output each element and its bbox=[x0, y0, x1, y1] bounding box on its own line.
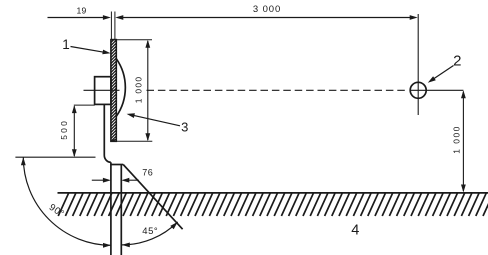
45 degree arc bbox=[122, 222, 178, 245]
dimension 19 line bbox=[48, 17, 104, 19]
loudspeaker dome 3 bbox=[116, 59, 125, 116]
svg-text:1: 1 bbox=[62, 37, 70, 52]
axis through microphone bbox=[410, 89, 464, 91]
dimension 500 line bbox=[73, 106, 75, 156]
svg-text:3: 3 bbox=[181, 119, 188, 134]
ground hatching 4 bbox=[58, 193, 488, 216]
plate extension lines top bbox=[110, 12, 112, 40]
svg-text:1 000: 1 000 bbox=[451, 125, 461, 153]
duct top edge bbox=[111, 164, 123, 166]
svg-text:2: 2 bbox=[453, 53, 461, 70]
support outline left bbox=[104, 105, 111, 163]
svg-text:45°: 45° bbox=[142, 226, 158, 237]
45 degree slope line bbox=[123, 165, 182, 230]
svg-text:19: 19 bbox=[77, 5, 87, 15]
dimension 500 top extension bbox=[74, 104, 95, 106]
label 1 leader bbox=[71, 47, 105, 53]
label 2 leader bbox=[430, 66, 454, 82]
label 3 leader bbox=[132, 115, 180, 126]
dimension 3000 line bbox=[123, 17, 412, 19]
svg-text:500: 500 bbox=[59, 119, 69, 140]
svg-text:1 000: 1 000 bbox=[134, 76, 144, 104]
microphone extension line bbox=[417, 14, 419, 115]
dimension 1000 line (left) bbox=[147, 41, 149, 140]
duct left wall bbox=[110, 162, 112, 255]
dimension 76 line left bbox=[92, 179, 104, 181]
dimension 76 line right bbox=[128, 179, 139, 181]
dimension 1000 top extension bbox=[117, 39, 153, 41]
axis centerline solid bbox=[84, 89, 120, 91]
driver box bbox=[95, 77, 111, 105]
90 degree arc bbox=[23, 157, 111, 245]
svg-text:4: 4 bbox=[351, 222, 359, 238]
duct right wall bbox=[120, 165, 122, 255]
axis centerline dashed bbox=[147, 89, 409, 91]
dimension 500 bottom extension / 90deg base bbox=[15, 156, 95, 158]
ground line bbox=[58, 192, 488, 194]
dimension 1000 line (right) bbox=[462, 92, 464, 192]
microphone circle 2 bbox=[410, 82, 426, 98]
svg-text:3 000: 3 000 bbox=[253, 4, 281, 15]
svg-text:76: 76 bbox=[142, 168, 153, 178]
dimension 1000 bottom extension bbox=[117, 140, 152, 142]
baffle plate 1 (hatched) bbox=[111, 37, 116, 141]
